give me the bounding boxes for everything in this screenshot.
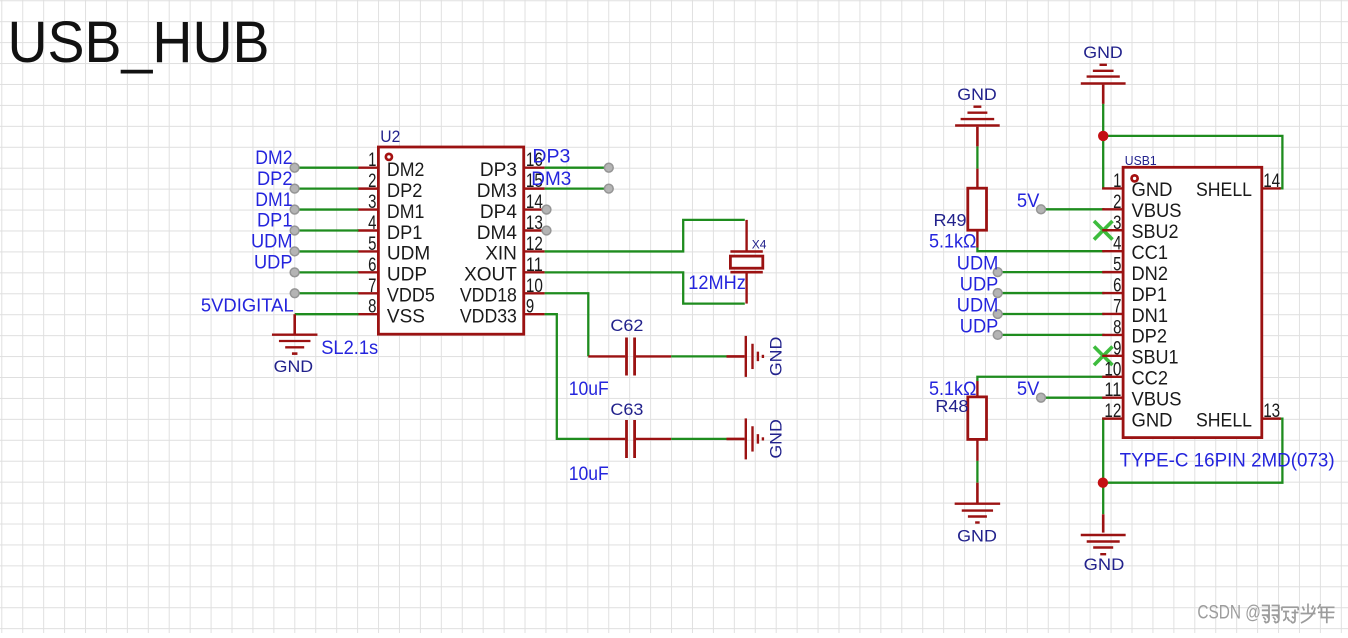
svg-text:12MHz: 12MHz	[688, 273, 746, 294]
resistor R48	[968, 381, 987, 461]
wire net DP2 to U2 pin 2	[290, 184, 358, 193]
svg-text:SL2.1s: SL2.1s	[321, 338, 378, 359]
svg-text:VBUS: VBUS	[1132, 201, 1182, 222]
svg-text:DM1: DM1	[387, 202, 425, 223]
USB1 pin 4 (CC1)	[1102, 234, 1168, 264]
svg-text:2: 2	[368, 171, 376, 192]
wire junction to USB1 pin 14 (SHELL)	[1103, 136, 1282, 189]
svg-text:14: 14	[1263, 171, 1280, 192]
U2 pin 1 (DM2)	[358, 150, 425, 181]
U2 pin 5 (UDM)	[358, 234, 431, 265]
USB1 pin 1 (GND)	[1102, 171, 1172, 201]
USB1 pin 8 (DP2)	[1102, 317, 1167, 347]
svg-text:DP2: DP2	[387, 181, 423, 202]
U2 pin 8 (VSS)	[358, 297, 425, 328]
svg-text:DN2: DN2	[1132, 264, 1169, 285]
svg-text:X4: X4	[752, 237, 767, 251]
wire net UDP to USB1 pin 8	[993, 331, 1104, 340]
svg-text:UDM: UDM	[251, 232, 293, 253]
ground GND (right of C62)	[727, 336, 786, 377]
wire net UDM to USB1 pin 7	[993, 310, 1104, 319]
svg-text:DP3: DP3	[532, 147, 570, 168]
svg-text:SBU1: SBU1	[1132, 348, 1179, 369]
svg-text:11: 11	[1104, 380, 1121, 401]
U2 pin 13 (DM4)	[477, 213, 545, 244]
svg-text:10: 10	[526, 276, 543, 297]
wire XIN to crystal X4	[545, 220, 745, 252]
svg-text:DM1: DM1	[255, 190, 292, 211]
svg-text:USB_HUB: USB_HUB	[8, 10, 270, 75]
resistor R49	[968, 169, 987, 248]
ground GND (right of C63)	[727, 418, 786, 459]
U2 pin 2 (DP2)	[358, 171, 423, 202]
wire C63 to GND	[671, 438, 726, 440]
ground GND (top, above USB1)	[1081, 43, 1126, 104]
U2 pin 12 (XIN)	[485, 234, 544, 265]
svg-text:5: 5	[1113, 255, 1121, 276]
ground GND (above R49)	[955, 85, 1000, 146]
no-connect flag X (USB1 pin 3)	[1094, 221, 1113, 240]
svg-text:4: 4	[368, 213, 377, 234]
svg-text:CC1: CC1	[1132, 243, 1169, 264]
wire U2 pin 8 VSS to GND	[295, 313, 359, 315]
unconnected dot U2 pin 13	[542, 226, 551, 235]
svg-text:13: 13	[526, 213, 543, 234]
wire net DM1 to U2 pin 3	[290, 205, 358, 214]
svg-text:UDP: UDP	[960, 316, 999, 337]
USB1 pin 9 (SBU1)	[1102, 338, 1178, 368]
svg-text:VSS: VSS	[387, 307, 425, 328]
svg-text:XOUT: XOUT	[464, 265, 517, 286]
wire USB1 pin 13 (SHELL) to ground junction	[1103, 419, 1282, 483]
wire net UDM to U2 pin 5	[290, 247, 358, 256]
svg-text:SHELL: SHELL	[1196, 410, 1252, 431]
svg-text:1: 1	[1113, 171, 1121, 192]
svg-text:13: 13	[1263, 401, 1280, 422]
IC U2 body	[378, 147, 523, 334]
U2 pin 16 (DP3)	[480, 150, 545, 181]
svg-text:VDD18: VDD18	[460, 286, 517, 307]
svg-text:5: 5	[368, 234, 376, 255]
svg-text:2: 2	[1113, 192, 1121, 213]
watermark CSDN @弱冠少年	[1197, 603, 1334, 624]
svg-text:DP1: DP1	[387, 223, 423, 244]
svg-text:GND: GND	[957, 85, 997, 104]
U2 pin 4 (DP1)	[358, 213, 423, 244]
svg-text:DM2: DM2	[387, 160, 425, 181]
wire net DP1 to U2 pin 4	[290, 226, 358, 235]
U2 pin 7 (VDD5)	[358, 276, 435, 307]
svg-text:8: 8	[1113, 317, 1121, 338]
svg-text:10uF: 10uF	[569, 379, 609, 400]
USB1 pin 11 (VBUS)	[1102, 380, 1181, 410]
svg-text:XIN: XIN	[485, 244, 517, 265]
svg-text:SBU2: SBU2	[1132, 222, 1179, 243]
svg-text:5VDIGITAL: 5VDIGITAL	[201, 295, 294, 315]
svg-text:VBUS: VBUS	[1132, 390, 1182, 411]
svg-text:10: 10	[1104, 359, 1121, 380]
svg-text:UDM: UDM	[957, 254, 999, 275]
svg-text:UDP: UDP	[960, 275, 999, 296]
svg-text:DP2: DP2	[257, 169, 293, 190]
svg-text:DP1: DP1	[257, 211, 293, 232]
svg-text:14: 14	[526, 192, 543, 213]
svg-text:GND: GND	[1132, 410, 1173, 431]
svg-text:SHELL: SHELL	[1196, 180, 1252, 201]
unconnected dot U2 pin 14	[542, 205, 551, 214]
wire net UDP to U2 pin 6	[290, 268, 358, 277]
wire XOUT to crystal X4	[545, 272, 745, 303]
svg-text:U2: U2	[380, 128, 400, 146]
svg-text:5.1kΩ: 5.1kΩ	[929, 232, 977, 253]
svg-text:UDP: UDP	[387, 265, 427, 286]
wire U2 pin 7 (unconnected end)	[290, 289, 358, 298]
svg-text:VDD5: VDD5	[387, 286, 435, 307]
U2 pin 6 (UDP)	[358, 255, 428, 286]
svg-text:DP2: DP2	[1132, 327, 1168, 348]
svg-text:DM4: DM4	[477, 223, 518, 244]
svg-text:11: 11	[526, 255, 543, 276]
svg-text:CC2: CC2	[1132, 369, 1169, 390]
svg-text:C63: C63	[610, 400, 643, 419]
svg-text:UDM: UDM	[957, 295, 999, 316]
USB1 pin 12 (GND)	[1102, 401, 1172, 431]
svg-text:7: 7	[1113, 296, 1121, 317]
svg-text:VDD33: VDD33	[460, 307, 517, 328]
USB1 pin 7 (DN1)	[1102, 296, 1168, 326]
USB1 pin 6 (DP1)	[1102, 276, 1167, 306]
svg-text:DN1: DN1	[1132, 306, 1169, 327]
wire VDD33 to C63	[545, 314, 590, 439]
U2 pin 9 (VDD33)	[460, 297, 545, 328]
connector USB1 body	[1123, 167, 1262, 437]
svg-text:C62: C62	[610, 316, 643, 335]
U2 pin 11 (XOUT)	[464, 255, 544, 286]
wire 5V to USB1 pin 11 (VBUS)	[1037, 393, 1105, 402]
svg-text:DP4: DP4	[480, 202, 517, 223]
svg-text:GND: GND	[1083, 43, 1123, 62]
svg-text:DP1: DP1	[1132, 285, 1168, 306]
USB1 pin 5 (DN2)	[1102, 255, 1168, 285]
svg-text:12: 12	[1104, 401, 1121, 422]
no-connect flag X (USB1 pin 9)	[1094, 347, 1113, 366]
svg-text:USB1: USB1	[1125, 154, 1157, 168]
ground GND (below R48)	[955, 483, 1001, 546]
junction (bottom GND net)	[1098, 478, 1108, 488]
wire net DM3 from U2 pin 15	[545, 184, 614, 193]
svg-text:8: 8	[368, 297, 376, 318]
wire net UDM to USB1 pin 5	[993, 268, 1104, 277]
wire net DP3 from U2 pin 16	[545, 163, 614, 172]
svg-text:3: 3	[368, 192, 376, 213]
svg-text:GND: GND	[274, 357, 314, 376]
USB1 pin 13 (SHELL)	[1196, 401, 1281, 431]
junction (GND / SHELL net)	[1098, 131, 1108, 141]
U2 pin 15 (DM3)	[477, 171, 545, 202]
ground GND (below U2 VSS)	[272, 314, 318, 376]
svg-text:CSDN @: CSDN @	[1197, 603, 1261, 624]
svg-text:DM2: DM2	[255, 148, 292, 169]
wire R48 to GND	[976, 461, 978, 483]
crystal X4	[730, 220, 762, 304]
svg-text:1: 1	[368, 150, 376, 171]
svg-text:R48: R48	[935, 396, 968, 416]
svg-text:GND: GND	[767, 337, 786, 377]
svg-text:DM3: DM3	[531, 169, 571, 190]
wire R49 to USB1 pin 4 (CC1)	[977, 248, 1104, 252]
svg-text:7: 7	[368, 276, 376, 297]
svg-text:6: 6	[1113, 276, 1121, 297]
wire VDD18 to C62	[545, 293, 589, 356]
USB1 pin 14 (SHELL)	[1196, 171, 1281, 201]
wire USB1 pin 12 (GND) to ground	[1103, 419, 1104, 515]
svg-text:4: 4	[1113, 234, 1122, 255]
capacitor C63	[590, 420, 672, 458]
svg-text:GND: GND	[767, 419, 786, 459]
svg-text:9: 9	[1113, 338, 1121, 359]
svg-text:TYPE-C 16PIN 2MD(073): TYPE-C 16PIN 2MD(073)	[1120, 451, 1335, 472]
svg-text:UDM: UDM	[387, 244, 430, 265]
svg-text:UDP: UDP	[254, 253, 293, 274]
capacitor C62	[588, 338, 671, 376]
svg-text:6: 6	[368, 255, 376, 276]
svg-text:DM3: DM3	[477, 181, 517, 202]
USB1 pin 2 (VBUS)	[1102, 192, 1181, 222]
wire net UDP to USB1 pin 6	[993, 289, 1104, 298]
svg-text:R49: R49	[934, 210, 967, 230]
ground GND (bottom, below USB1)	[1081, 514, 1126, 574]
USB1 pin 3 (SBU2)	[1102, 213, 1178, 243]
svg-text:3: 3	[1113, 213, 1121, 234]
svg-text:GND: GND	[1084, 555, 1125, 574]
U2 pin 3 (DM1)	[358, 192, 425, 223]
svg-text:10uF: 10uF	[569, 464, 609, 485]
wire 5V to USB1 pin 2 (VBUS)	[1037, 205, 1105, 214]
U2 pin 10 (VDD18)	[460, 276, 545, 307]
svg-text:DP3: DP3	[480, 160, 517, 181]
wire net DM2 to U2 pin 1	[290, 163, 358, 172]
wire C62 to GND	[671, 355, 726, 357]
wire GND to R49	[976, 146, 978, 168]
U2 pin 14 (DP4)	[480, 192, 545, 223]
svg-text:GND: GND	[957, 526, 997, 545]
svg-text:12: 12	[526, 234, 543, 255]
wire top GND to USB1 pin 1	[1103, 104, 1104, 188]
svg-text:GND: GND	[1132, 180, 1173, 201]
svg-text:9: 9	[526, 297, 534, 318]
wire R48 to USB1 pin 10 (CC2)	[977, 377, 1104, 381]
USB1 pin 10 (CC2)	[1102, 359, 1168, 389]
